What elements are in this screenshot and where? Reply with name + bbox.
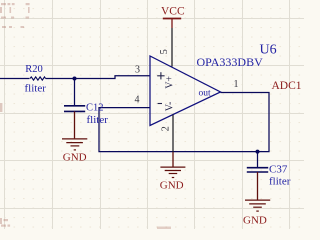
svg-text:GND: GND [160, 179, 184, 191]
svg-text:R20: R20 [25, 64, 43, 75]
ground symbol (op-amp pin 2) [160, 167, 185, 177]
capacitor C37 [247, 168, 268, 172]
svg-text:1: 1 [234, 79, 239, 90]
svg-text:C37: C37 [269, 163, 288, 175]
svg-text:VCC: VCC [161, 6, 185, 18]
svg-text:2: 2 [161, 126, 172, 131]
resistor R20 zigzag [30, 77, 46, 80]
junction node A (input) [73, 77, 77, 81]
svg-text:3: 3 [135, 65, 140, 76]
wire: pin2 stem to ground [172, 152, 174, 167]
op-amp pin 2 vertical to ground [172, 115, 174, 152]
ground symbol (below C12) [62, 139, 87, 150]
wire: input net from left edge to resistor R20 [0, 76, 269, 167]
svg-text:C12: C12 [86, 102, 104, 113]
pin name - (inverting) [158, 103, 162, 105]
red border artifacts top-left corner [0, 3, 30, 28]
junction node B (output/C37) [256, 150, 260, 154]
svg-text:fliter: fliter [87, 114, 109, 126]
svg-text:fliter: fliter [269, 175, 291, 187]
ground symbol (below C37) [245, 200, 270, 211]
red border artifact bottom edge [157, 227, 171, 230]
svg-text:4: 4 [135, 94, 140, 105]
wire: op-amp pin 4 feedback loop [99, 93, 269, 152]
op-amp pin 5 vertical [171, 28, 173, 67]
capacitor C12 [64, 106, 85, 112]
svg-text:out: out [199, 88, 212, 98]
wire: junction down to capacitor C12 [74, 79, 76, 106]
svg-text:5: 5 [159, 49, 170, 54]
wire: C12 bottom to ground [74, 111, 76, 138]
wire: C37 bottom to ground [257, 172, 259, 200]
svg-text:V+: V+ [165, 76, 176, 89]
op-amp U6 triangle [150, 56, 221, 126]
svg-text:V-: V- [165, 102, 176, 112]
svg-text:GND: GND [63, 152, 87, 164]
svg-text:OPA333DBV: OPA333DBV [197, 55, 264, 69]
wire: feedback junction down to capacitor C37 [257, 152, 259, 167]
wire: resistor to op-amp pin 3 with jog [46, 76, 151, 79]
pin name + (non-inverting) [157, 72, 164, 79]
svg-text:ADC1: ADC1 [272, 80, 302, 92]
power port VCC [163, 18, 181, 20]
svg-text:fliter: fliter [25, 82, 47, 94]
svg-text:GND: GND [243, 214, 267, 226]
red border artifact bottom-left corner [0, 218, 10, 227]
red border artifact left edge [0, 103, 2, 112]
wire: VCC stem down to op-amp pin 5 [171, 19, 173, 29]
